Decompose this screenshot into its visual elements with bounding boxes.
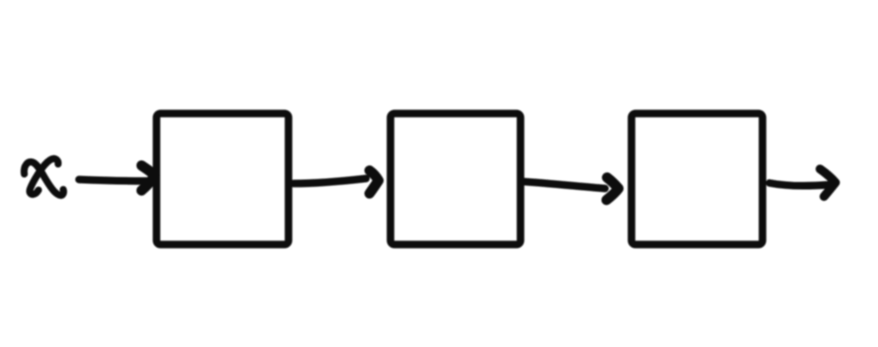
node x (input label) bbox=[24, 159, 63, 196]
wire: arrow box1 to box2 shaft bbox=[294, 179, 367, 184]
box 1 (first block) bbox=[157, 114, 289, 245]
input arrow head bbox=[142, 166, 156, 191]
output arrow head bbox=[820, 169, 836, 197]
wire: arrow box2 to box3 shaft bbox=[522, 182, 606, 189]
arrow head box2 to box3 bbox=[607, 178, 619, 201]
wire: input arrow shaft bbox=[79, 180, 147, 182]
arrow head box1 to box2 bbox=[370, 171, 379, 194]
box 2 (second block) bbox=[391, 114, 521, 245]
box 3 (third block) bbox=[632, 114, 763, 245]
wire: output arrow shaft bbox=[770, 183, 830, 186]
